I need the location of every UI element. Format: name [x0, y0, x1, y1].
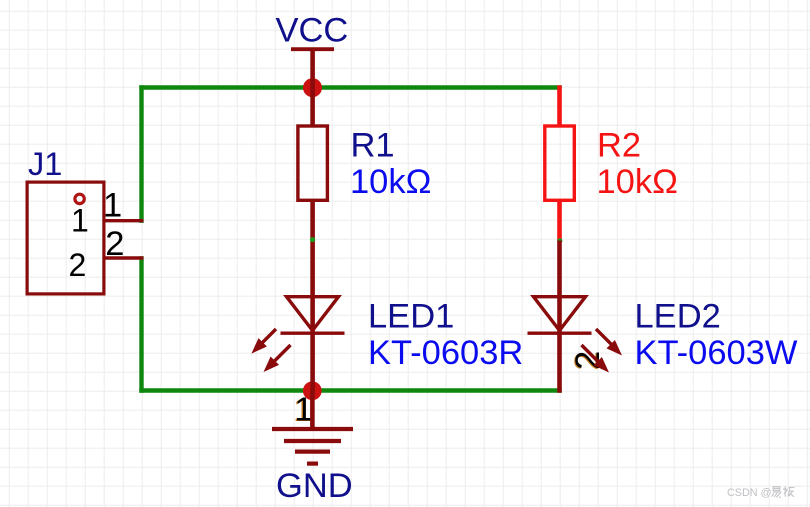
svg-text:2: 2: [105, 225, 124, 263]
svg-text:R2: R2: [597, 127, 641, 165]
wire R2 bottom stub (selected): [557, 200, 562, 241]
svg-text:10kΩ: 10kΩ: [597, 163, 678, 201]
wire VCC horizontal (top net): [139, 85, 561, 89]
svg-text:2: 2: [69, 247, 87, 283]
junction dot VCC node: [303, 78, 322, 97]
svg-text:1: 1: [103, 187, 122, 225]
svg-text:LED1: LED1: [368, 298, 454, 336]
J1 pin 2 line: [104, 256, 144, 259]
J1 pin 1 circle indicator: [75, 194, 84, 203]
LED LED1 symbol: [281, 297, 345, 334]
watermark CSDN: [727, 486, 794, 499]
svg-text:10kΩ: 10kΩ: [350, 163, 431, 201]
svg-text:J1: J1: [28, 146, 62, 182]
ground symbol GND: [272, 392, 353, 505]
junction dot GND node: [303, 381, 322, 400]
svg-text:VCC: VCC: [276, 12, 349, 50]
LED LED2 symbol: [528, 297, 592, 334]
resistor R2 body (selected): [545, 126, 575, 200]
LED2 emission arrow upper: [596, 329, 622, 356]
LED1 emission arrow lower: [264, 345, 291, 372]
wire end marker (R2 branch): [557, 238, 562, 243]
svg-text:1: 1: [71, 203, 89, 239]
svg-text:LED2: LED2: [635, 298, 721, 336]
resistor R1 body: [298, 126, 328, 200]
svg-text:KT-0603W: KT-0603W: [635, 334, 798, 372]
J1 pin 1 line: [104, 219, 144, 222]
pin number 2 of LED2 (rotated): [568, 351, 607, 371]
svg-text:CSDN @: CSDN @: [727, 487, 772, 499]
wire GND horizontal (bottom net): [139, 388, 561, 392]
LED2 emission arrow lower: [582, 345, 610, 373]
wire J1 pin 2 down to GND net: [139, 256, 143, 393]
svg-text:R1: R1: [351, 127, 395, 165]
LED1 emission arrow upper: [251, 329, 276, 354]
svg-text:KT-0603R: KT-0603R: [368, 334, 523, 372]
power flag VCC: [276, 12, 349, 81]
wire R1 to LED1: [310, 200, 315, 393]
wire left vertical VCC to J1 pin 1: [139, 85, 143, 223]
connector J1 body: [27, 182, 104, 294]
wire R2 to LED2: [557, 241, 562, 393]
wire end marker (R1 branch): [310, 237, 315, 242]
wire VCC to R2 (selected, bright red): [557, 85, 562, 126]
svg-text:GND: GND: [276, 467, 353, 505]
wire VCC junction to R1: [310, 80, 315, 126]
